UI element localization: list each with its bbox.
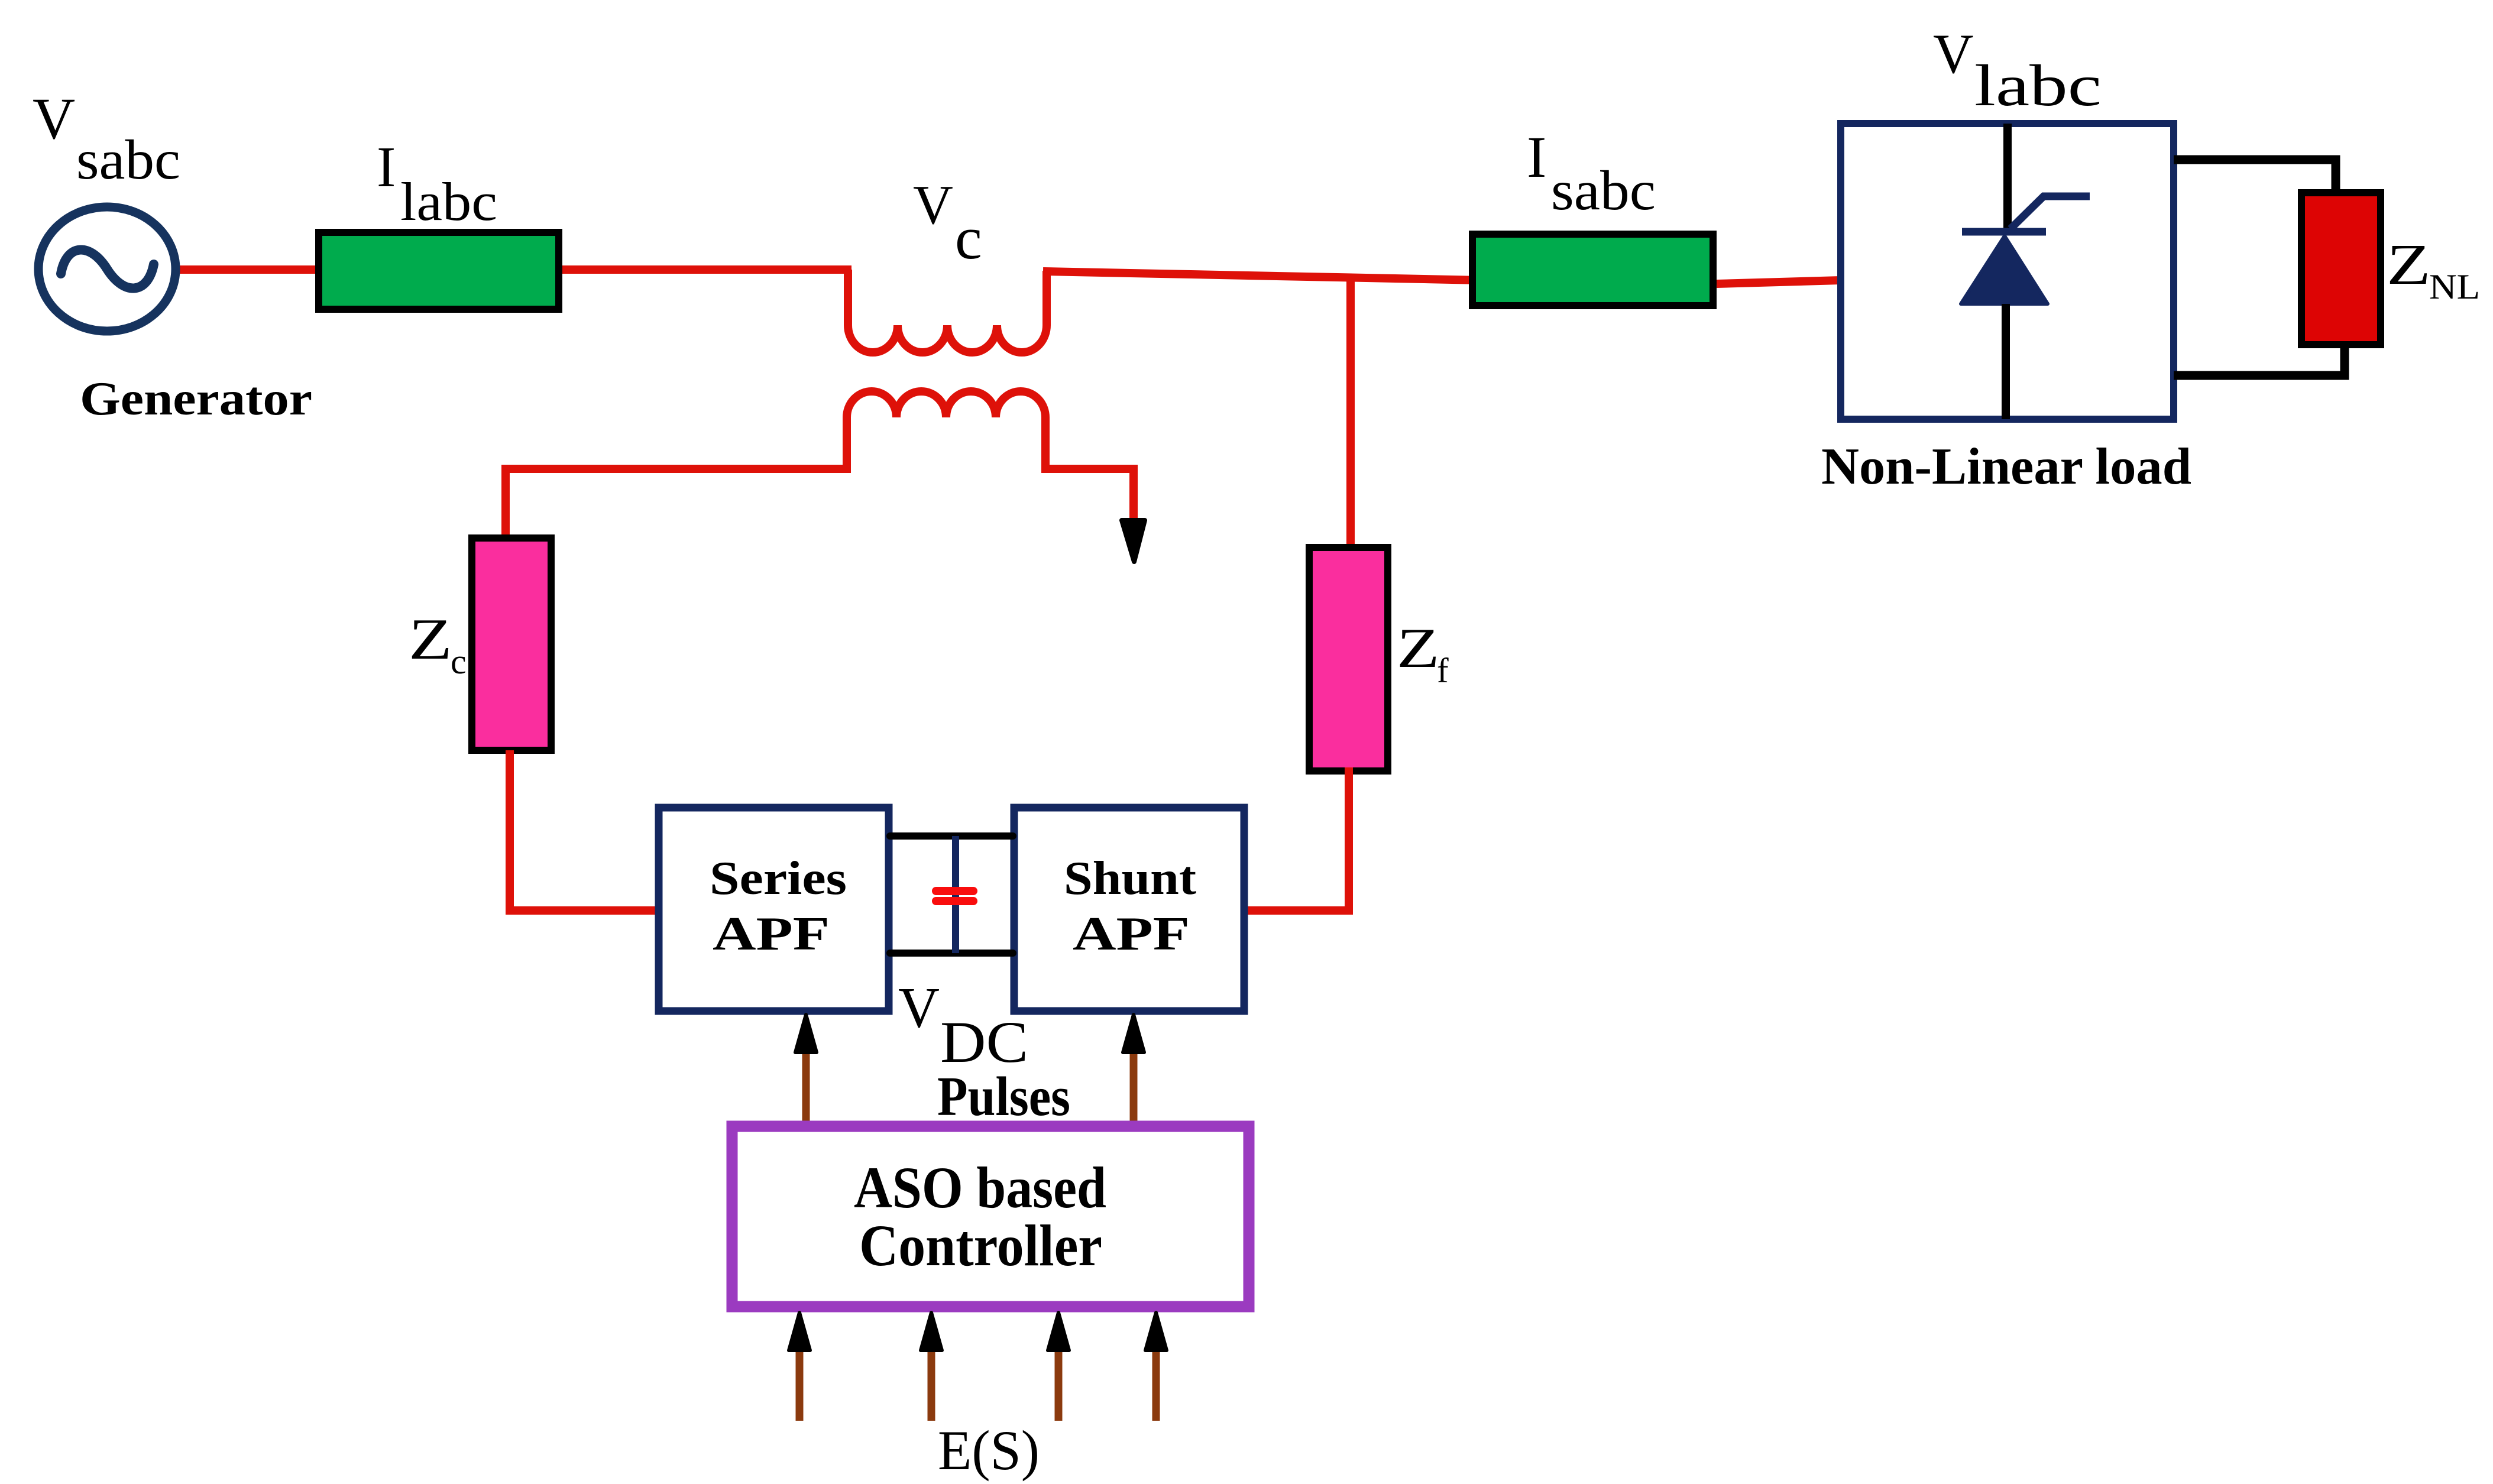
svg-text:Z: Z [2387,232,2431,297]
label Vsabc [33,86,180,191]
input arrow 2 to controller [921,1313,942,1421]
load impedance ZNL (red) [2301,193,2381,345]
svg-text:labc: labc [400,171,497,232]
wire: generator to PCC (left red rail) [176,265,851,274]
svg-text:labc: labc [1974,53,2102,118]
transformer primary winding (Vc series injection) [848,270,1047,352]
label Shunt APF [1064,853,1196,960]
pulse arrow to Shunt APF [1123,1015,1144,1121]
label Series APF [710,853,847,960]
svg-text:NL: NL [2429,267,2480,306]
impedance Zf (pink) [1309,547,1388,771]
transformer secondary winding [506,391,1134,539]
wire: Zc to Series APF [510,750,656,911]
svg-text:V: V [33,86,75,151]
svg-text:Z: Z [1397,617,1440,679]
svg-text:c: c [955,205,982,272]
svg-text:sabc: sabc [76,128,180,191]
svg-text:I: I [1527,124,1546,190]
svg-text:Controller: Controller [859,1213,1102,1278]
svg-text:c: c [451,642,467,681]
svg-text:I: I [377,135,396,199]
svg-text:ASO based: ASO based [854,1155,1106,1220]
svg-text:Non-Linear load: Non-Linear load [1821,438,2191,495]
label Ilabc [377,135,497,232]
thyristor cathode bar [1962,228,2046,236]
svg-text:f: f [1437,651,1449,690]
pulse arrow to Series APF [795,1015,817,1121]
thyristor cathode lead [2002,304,2010,419]
svg-text:DC: DC [940,1009,1028,1075]
DC link capacitor lead [952,836,959,953]
svg-text:APF: APF [713,908,830,960]
wire: ZNL bottom to load box [2174,343,2345,375]
label Isabc [1527,124,1656,222]
svg-text:V: V [913,174,953,236]
ASO based Controller box (purple) [732,1126,1249,1307]
label Vlabc [1933,22,2102,118]
label Zc [409,607,467,681]
svg-text:Series: Series [710,853,847,905]
ground arrow (secondary reference) [1122,520,1145,562]
node: PCC junction to Zf branch [1346,277,1355,550]
generator source Vsabc [38,207,176,331]
DC link top bus [890,832,1013,840]
svg-text:Pulses: Pulses [937,1066,1070,1127]
thyristor anode lead [2003,124,2012,232]
label Zf [1397,617,1449,690]
thyristor gate lead [2010,196,2090,229]
label VDC [898,976,1028,1075]
input arrow 4 to controller [1145,1313,1167,1421]
svg-text:V: V [1933,22,1974,85]
label Vc [913,174,982,272]
svg-text:Shunt: Shunt [1064,853,1196,905]
svg-text:E(S): E(S) [938,1419,1040,1482]
non-linear load box [1841,124,2174,419]
Shunt APF box [1014,808,1244,1011]
svg-text:APF: APF [1073,908,1190,960]
input arrow 1 to controller [789,1313,810,1421]
impedance Zc (pink) [472,538,551,750]
Series APF box [659,808,889,1011]
DC link bottom bus [890,950,1013,957]
wire: right red rail (transformer to non-linear load) [1043,271,1717,285]
label ZNL [2387,232,2480,306]
input arrow 3 to controller [1048,1313,1069,1421]
svg-text:sabc: sabc [1551,159,1656,222]
sensor block Isabc (green) [1472,234,1713,306]
wire: load box to ZNL top [2174,160,2336,195]
wire: Zf to Shunt APF [1246,767,1349,911]
label ASO based Controller [854,1155,1106,1278]
svg-text:Z: Z [409,607,452,671]
svg-text:V: V [898,976,940,1039]
sensor block Ilabc (green) [319,232,559,309]
DC link capacitor plates (red) [936,891,973,901]
svg-text:Generator: Generator [80,372,312,425]
thyristor triangle [1961,236,2048,304]
